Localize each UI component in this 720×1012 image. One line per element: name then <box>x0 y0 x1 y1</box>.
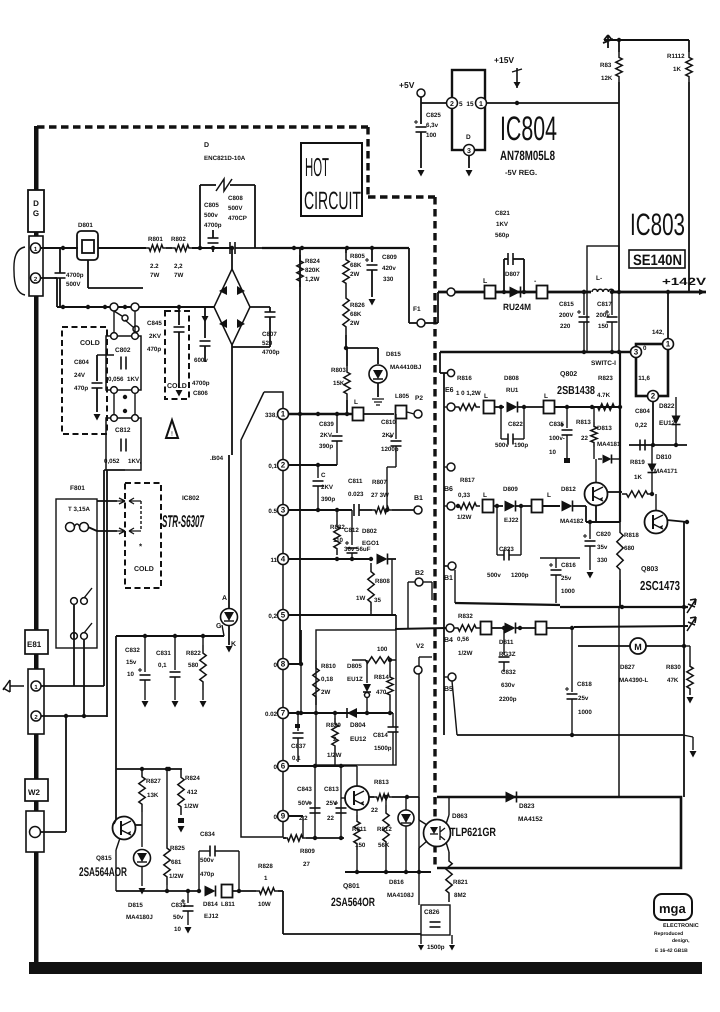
svg-text:Q802: Q802 <box>560 371 577 378</box>
svg-text:B6: B6 <box>444 486 453 493</box>
capacitor C804 0.22 <box>642 397 644 436</box>
box around L- C817 filter <box>587 246 619 352</box>
svg-text:C806: C806 <box>193 390 208 397</box>
lower right block box <box>437 797 681 868</box>
svg-text:4700p: 4700p <box>204 222 222 229</box>
wire jog down to rail y522 <box>585 506 587 522</box>
svg-text:C811: C811 <box>348 478 363 485</box>
wire pin7 rail y713 <box>289 712 393 714</box>
IC804 regulator box <box>452 70 485 150</box>
wire B1 bus bold y603 <box>455 603 560 605</box>
terminal B5 circle <box>448 673 456 681</box>
resistor R821 8M2 <box>446 852 452 902</box>
svg-text:D807: D807 <box>505 271 520 278</box>
svg-text:4700p: 4700p <box>192 380 210 387</box>
svg-text:27 3W: 27 3W <box>371 492 389 499</box>
svg-text:1: 1 <box>264 875 268 882</box>
resistor R805 68K 2W <box>345 248 347 253</box>
svg-text:R832: R832 <box>458 613 473 620</box>
terminal P2 <box>414 410 422 418</box>
svg-text:5: 5 <box>281 611 286 620</box>
svg-text:22: 22 <box>581 435 588 442</box>
terminal circle top of bus <box>447 369 454 376</box>
wire Q802 collector down <box>595 506 597 521</box>
connector DG box <box>28 190 44 232</box>
terminal circle above B6 <box>447 463 455 471</box>
svg-text:4: 4 <box>281 555 286 564</box>
svg-text:D: D <box>33 199 39 208</box>
wire rail y769 <box>116 768 182 770</box>
svg-text:R826: R826 <box>350 302 365 309</box>
thick left vertical line <box>34 126 39 966</box>
wire opto input top <box>418 797 420 820</box>
capacitor 4700p 500V line filter <box>59 248 61 273</box>
IC802 pin 3 <box>278 505 289 516</box>
wire Q802 base up <box>595 459 597 482</box>
wire V2 stub from boundary <box>419 656 432 658</box>
capacitor C835 100v 10 <box>566 407 568 428</box>
wire pin5 rail y615 <box>289 614 396 616</box>
inductor L811 box <box>222 885 233 898</box>
svg-text:C833: C833 <box>171 902 186 909</box>
resistor R822 580 <box>202 636 204 645</box>
inductor box L on pin1 rail <box>353 408 364 421</box>
IC802 pin 2 <box>278 460 289 471</box>
inductor box row B6 <box>483 500 494 513</box>
svg-text:500v: 500v <box>200 857 214 864</box>
wire opto out top <box>446 815 449 824</box>
bridge diode top-left <box>219 286 227 295</box>
svg-text:500V: 500V <box>66 281 81 288</box>
resistor R814 470 <box>389 660 391 672</box>
wire x419 vertical long <box>418 674 420 905</box>
resistor R838 12K <box>618 40 620 52</box>
inductor box L on rail <box>485 286 496 299</box>
svg-text:R813: R813 <box>374 779 389 786</box>
hot/cold dashed boundary long vertical x435 <box>433 197 436 866</box>
svg-text:681: 681 <box>171 859 182 866</box>
svg-text:B1: B1 <box>414 495 423 502</box>
svg-text:+142V: +142V <box>662 276 706 288</box>
svg-text:R812: R812 <box>377 826 392 833</box>
svg-text:Q801: Q801 <box>343 883 360 890</box>
svg-text:EU12: EU12 <box>659 420 676 427</box>
svg-text:-5V REG.: -5V REG. <box>505 168 537 177</box>
resistor R809 27 <box>284 835 306 841</box>
svg-text:11,6: 11,6 <box>638 375 650 382</box>
warning triangle mark <box>166 420 178 438</box>
wire B2 right stub to boundary <box>423 581 432 583</box>
wire M row y646 <box>578 645 684 647</box>
svg-text:C837: C837 <box>291 743 306 750</box>
svg-text:1/2W: 1/2W <box>457 514 472 521</box>
svg-text:1: 1 <box>281 410 286 419</box>
svg-text:500v: 500v <box>204 212 218 219</box>
svg-text:R805: R805 <box>350 253 365 260</box>
W2 pin <box>30 827 41 838</box>
svg-text:C805: C805 <box>204 202 219 209</box>
capacitor C831 0.1 <box>174 636 176 670</box>
svg-text:C832: C832 <box>125 647 140 654</box>
svg-text:+15V: +15V <box>494 55 514 65</box>
svg-text:2,2: 2,2 <box>174 263 183 270</box>
AC inlet pin 1 <box>31 243 41 253</box>
wire secondary bus top stub <box>439 352 441 373</box>
svg-text:470p: 470p <box>200 871 214 878</box>
svg-text:R813: R813 <box>576 419 591 426</box>
wire mid rail y872 <box>345 871 431 873</box>
svg-text:470p: 470p <box>147 346 161 353</box>
svg-text:C825: C825 <box>426 112 441 119</box>
svg-text:1200p: 1200p <box>381 446 399 453</box>
svg-text:R809: R809 <box>300 848 315 855</box>
connector E81 label box <box>25 630 48 654</box>
hot/cold dashed boundary top horizontal <box>37 125 368 128</box>
wire pin1 rail y414 <box>289 413 352 415</box>
svg-text:D805: D805 <box>347 663 362 670</box>
transistor Q815 2SA564AOR <box>113 817 136 840</box>
capacitor C 2KV 390p <box>317 465 319 478</box>
svg-text:0,18: 0,18 <box>321 676 334 683</box>
svg-text:520: 520 <box>262 340 273 347</box>
svg-text:0: 0 <box>643 345 647 352</box>
wire rail corner down to F1 <box>408 248 410 323</box>
resistor R826 68K 2W <box>343 290 349 335</box>
svg-text:R818: R818 <box>624 532 639 539</box>
terminal B1 hot side <box>414 506 422 514</box>
wire main rail y248 to right section <box>262 247 409 249</box>
capacitor C809 420v 330 <box>371 248 373 262</box>
svg-text:47K: 47K <box>667 677 679 684</box>
svg-text:C812: C812 <box>344 527 359 534</box>
resistor R817 0.33 <box>456 503 480 509</box>
svg-text:C812: C812 <box>115 427 131 434</box>
wire opto input bottom <box>419 841 427 848</box>
svg-text:5: 5 <box>459 101 463 108</box>
COLD dashed box around C845 <box>165 311 189 399</box>
svg-text:0,1: 0,1 <box>268 463 277 470</box>
wire row E6 to Q802 <box>555 406 622 408</box>
resistor R807 27 3W <box>372 507 392 513</box>
svg-text:G: G <box>216 623 222 630</box>
wire output rail y607 <box>560 606 688 608</box>
IC802 pin 9 <box>278 811 289 822</box>
resistor R813b 22 <box>369 796 374 798</box>
svg-text:L805: L805 <box>395 393 410 400</box>
svg-text:IC804: IC804 <box>500 110 557 148</box>
svg-text:0.02: 0.02 <box>265 711 278 718</box>
svg-text:1/2W: 1/2W <box>327 752 342 759</box>
diode D811 RG3Z <box>505 623 516 634</box>
svg-text:MA4152: MA4152 <box>518 816 543 823</box>
motor terminal M circle <box>630 638 646 654</box>
svg-text:design,: design, <box>672 938 690 944</box>
E81 pin 2 <box>31 711 41 721</box>
svg-text:R814: R814 <box>374 674 389 681</box>
wire AC line 2 <box>41 277 57 279</box>
svg-text:1KV: 1KV <box>496 221 509 228</box>
svg-text:AN78M05L8: AN78M05L8 <box>500 148 555 163</box>
capacitor C832 630v 2200p <box>503 628 505 655</box>
svg-text:10: 10 <box>549 449 556 456</box>
capacitor C820 35v 330 <box>589 522 591 539</box>
AC plug bracket <box>14 247 25 295</box>
svg-text:D827: D827 <box>620 664 635 671</box>
svg-text:C831: C831 <box>156 650 171 657</box>
svg-text:100: 100 <box>377 646 388 653</box>
svg-text:1: 1 <box>666 340 671 349</box>
svg-text:630v: 630v <box>501 682 515 689</box>
svg-text:2W: 2W <box>321 689 330 696</box>
wire B2 left to x408 <box>408 581 415 583</box>
svg-text:0,22: 0,22 <box>635 422 648 429</box>
wire x116 down from rail y636 <box>115 636 117 769</box>
svg-text:200v: 200v <box>596 312 610 319</box>
svg-text:R817: R817 <box>460 477 475 484</box>
svg-text:B1: B1 <box>444 575 453 582</box>
svg-text:SWITC-I: SWITC-I <box>591 360 616 367</box>
bridge diode bottom-left <box>219 319 227 328</box>
IC803 sub pin 1 <box>663 339 674 350</box>
svg-text:D814: D814 <box>203 901 218 908</box>
svg-text:D: D <box>204 142 209 149</box>
svg-text:0: 0 <box>274 764 278 771</box>
svg-text:1K: 1K <box>673 66 681 73</box>
svg-text:11: 11 <box>270 557 277 564</box>
wire C802 top feeds <box>113 311 115 333</box>
svg-text:390p: 390p <box>319 443 333 450</box>
svg-text:R827: R827 <box>146 778 161 785</box>
wire pin8 rail y664 <box>289 663 301 665</box>
svg-text:3: 3 <box>281 506 286 515</box>
wire secondary bus x444 <box>443 373 445 735</box>
svg-text:EJ22: EJ22 <box>504 517 519 524</box>
capacitor C839 2KV 390p <box>336 414 338 433</box>
inductor box row E6 <box>484 401 495 414</box>
wire R828 to bottom rail <box>278 890 283 892</box>
wire opto out bottom to R821 <box>446 842 449 852</box>
svg-text:C: C <box>321 472 326 479</box>
output arrow 2 <box>687 617 696 631</box>
arrow into cold box row2 <box>117 528 125 534</box>
wire rail y445 <box>629 444 687 446</box>
svg-text:56K: 56K <box>378 842 390 849</box>
wire rail y872 to box <box>431 868 437 872</box>
wire Q802 emitter right <box>607 491 622 493</box>
AC inlet connector body <box>29 236 43 296</box>
output arrow 1 <box>687 599 696 613</box>
svg-text:L: L <box>484 393 488 400</box>
wire fuse row y501 <box>97 500 117 502</box>
capacitor block C802 0.056 1KV <box>106 336 141 390</box>
svg-text:7W: 7W <box>150 272 159 279</box>
wire primary line A x104 <box>103 470 105 686</box>
capacitor C822 500v 190p bypass <box>500 407 502 439</box>
ground arrow under C826 right <box>451 935 453 944</box>
wire pin2 rail y465 <box>289 464 337 466</box>
wire Q815 collector down to rail891 <box>116 838 120 850</box>
wire top rail y40 <box>604 39 689 41</box>
capacitor C806 4700p 600v <box>204 307 206 338</box>
capacitor C810 2KV 1200p <box>395 414 397 439</box>
terminal circle on 142V rail <box>447 288 455 296</box>
power switch pole 2 <box>71 633 78 640</box>
svg-text:EU1Z: EU1Z <box>347 676 363 683</box>
svg-text:1/2W: 1/2W <box>458 650 473 657</box>
inductor box row B4 second <box>536 622 547 635</box>
svg-text:C802: C802 <box>115 347 131 354</box>
svg-text:3: 3 <box>634 348 639 357</box>
svg-text:!: ! <box>171 431 173 438</box>
wire IC804 pin3 to ground <box>468 156 470 168</box>
svg-text:680: 680 <box>624 545 635 552</box>
wire D801 lower output <box>87 260 89 288</box>
IC804 pin 2 <box>447 98 458 109</box>
svg-text:4700p: 4700p <box>66 272 84 279</box>
svg-text:TLP621GR: TLP621GR <box>450 825 496 839</box>
transistor Q803 2SC1473 circle <box>645 511 668 534</box>
svg-text:0.5: 0.5 <box>268 508 277 515</box>
svg-text:E81: E81 <box>27 640 42 649</box>
wire bottom rail y838 with R809 <box>283 837 286 839</box>
diode D814 EJ12 <box>205 886 216 897</box>
fuse F801 body T3.15A <box>56 499 97 648</box>
svg-text:470CP: 470CP <box>228 215 247 222</box>
wire AC line 1 to D801 <box>41 247 78 249</box>
diode D816 MA4108J in circle <box>398 810 414 826</box>
svg-text:R802: R802 <box>171 236 186 243</box>
manufacturer logo <box>654 894 692 920</box>
wire x620 vertical bold <box>619 352 621 522</box>
resistor R813 22 vertical <box>593 407 595 422</box>
resistor R808 1W 35 <box>369 557 373 561</box>
svg-text:4700p: 4700p <box>262 349 280 356</box>
capacitor C811 0.023 <box>353 504 355 516</box>
svg-text:500V: 500V <box>228 205 243 212</box>
wire row y629 crossing boundary to B4 <box>395 628 446 629</box>
svg-text:2: 2 <box>651 392 656 401</box>
svg-text:0,1: 0,1 <box>292 755 301 762</box>
svg-text:C845: C845 <box>147 320 162 327</box>
relay contact pole small circle 2 <box>133 326 139 332</box>
svg-text:ENC821D-10A: ENC821D-10A <box>204 155 246 162</box>
svg-text:C807: C807 <box>262 331 277 338</box>
resistor R810 0.18 2W <box>313 660 319 705</box>
resistor R801 2.2 7W <box>146 245 166 251</box>
svg-text:150: 150 <box>355 842 366 849</box>
svg-text:IC803: IC803 <box>630 207 685 242</box>
HOT CIRCUIT label box <box>301 143 362 216</box>
wire R802 to C805 node <box>192 247 230 249</box>
svg-text:10W: 10W <box>258 901 271 908</box>
svg-text:V2: V2 <box>416 643 424 650</box>
svg-text:R1112: R1112 <box>667 53 685 60</box>
svg-text:9: 9 <box>281 812 286 821</box>
wire SCR anode up <box>231 455 233 470</box>
diode D808 RU1 <box>507 402 518 413</box>
svg-text:C821: C821 <box>495 210 510 217</box>
svg-text:R824: R824 <box>305 258 320 265</box>
svg-text:D: D <box>466 134 471 141</box>
svg-text:15v: 15v <box>126 659 137 666</box>
capacitor C818 25v 1000 <box>571 628 573 692</box>
svg-text:A: A <box>222 595 227 602</box>
power switch pole 1 <box>71 598 78 605</box>
svg-text:412: 412 <box>187 789 198 796</box>
svg-text:R801: R801 <box>148 236 163 243</box>
svg-text:R819: R819 <box>630 459 645 466</box>
svg-text:mga: mga <box>659 901 687 916</box>
svg-text:R829: R829 <box>326 722 341 729</box>
svg-text:100v-: 100v- <box>549 435 565 442</box>
svg-text:W2: W2 <box>28 788 41 797</box>
svg-text:D822: D822 <box>659 403 675 410</box>
hot/cold dashed boundary vertical drop at x368 <box>366 127 369 197</box>
terminal B2 <box>415 578 423 586</box>
wire x687 down to box <box>683 522 685 797</box>
wire Q803 emitter right <box>667 520 687 522</box>
COLD dashed box around C804 <box>62 327 107 434</box>
wire bridge bottom down <box>231 345 233 455</box>
wire secondary rail y352 to sub pin3 <box>440 351 630 353</box>
svg-text:HOT: HOT <box>305 152 329 182</box>
svg-text:2: 2 <box>450 101 454 108</box>
svg-text:2SA564AOR: 2SA564AOR <box>79 865 127 879</box>
svg-text:C813: C813 <box>324 786 339 793</box>
diode D815 MA4410BJ in circle <box>369 365 387 383</box>
svg-text:L811: L811 <box>221 901 235 908</box>
svg-text:D816: D816 <box>389 879 404 886</box>
wire rail y891 <box>116 890 166 892</box>
svg-text:ELECTRONIC: ELECTRONIC <box>663 923 699 929</box>
wire row B6 to D812 <box>543 505 560 507</box>
degauss relay contact a <box>110 303 118 311</box>
relay contact pole small circle 1 <box>122 315 128 321</box>
svg-text:15K: 15K <box>333 380 345 387</box>
svg-text:.B04: .B04 <box>210 455 224 462</box>
svg-text:C808: C808 <box>228 195 243 202</box>
svg-text:35: 35 <box>374 597 381 604</box>
svg-text:27: 27 <box>303 861 310 868</box>
svg-text:1: 1 <box>479 101 483 108</box>
bridge diode bottom-right <box>237 319 245 328</box>
svg-text:1000: 1000 <box>578 709 592 716</box>
wire pin4 rail y559 <box>289 558 372 560</box>
svg-text:IC802: IC802 <box>182 495 200 502</box>
capacitor C845 2KV 470p <box>178 307 180 325</box>
diode D802b EGO1 <box>377 554 388 565</box>
svg-text:MA4410BJ: MA4410BJ <box>390 364 422 371</box>
control network box <box>316 630 396 765</box>
plug arrow at E81 <box>3 680 24 692</box>
resistor R803 15K <box>346 348 348 366</box>
wire rail y636 <box>116 635 224 637</box>
svg-text:R807: R807 <box>372 479 387 486</box>
wire D801 to R801 <box>98 247 146 249</box>
wire R801-R802 <box>166 247 172 249</box>
svg-text:1KV: 1KV <box>127 376 140 383</box>
svg-text:C823: C823 <box>499 546 514 553</box>
svg-text:8: 8 <box>281 660 286 669</box>
svg-text:0,33: 0,33 <box>458 492 471 499</box>
diode D815b MA4180J in circle <box>141 828 143 847</box>
terminal B6 circle <box>447 502 455 510</box>
svg-text:B4: B4 <box>444 637 453 644</box>
resistor R824b 412 1/2W <box>178 769 184 815</box>
arrow into cold box row1 <box>117 498 125 504</box>
resistor R1112 1K <box>688 40 690 52</box>
svg-text:2.2: 2.2 <box>150 263 159 270</box>
